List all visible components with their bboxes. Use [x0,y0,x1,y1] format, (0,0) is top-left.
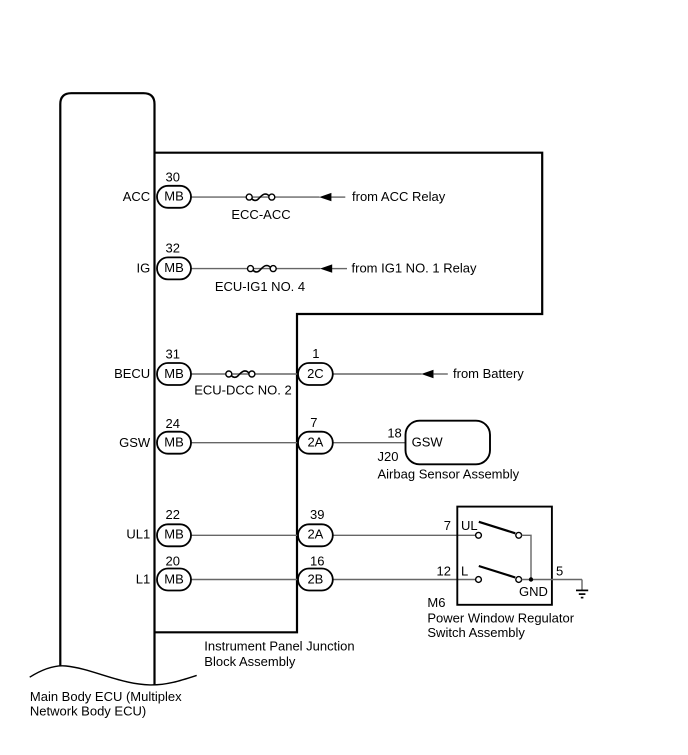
wire BECU right of arrow [434,373,448,375]
svg-text:UL1: UL1 [126,527,150,542]
switch UL left contact [476,532,482,538]
svg-text:32: 32 [166,240,180,255]
wire UL1 row right [333,534,476,536]
switch UL blade [479,522,516,534]
svg-text:39: 39 [310,507,324,522]
wire L1 row right [333,579,476,581]
svg-text:Network Body ECU): Network Body ECU) [30,704,146,719]
ground bar 2 [579,593,586,595]
fuse ECU-DCC NO. 2 left circle [226,371,232,377]
GND junction dot [529,577,533,581]
fuse ECU-DCC NO. 2 right circle [249,371,255,377]
fuse ECC-ACC wave [252,194,270,200]
connector oval 2A pin 39 [298,524,333,546]
svg-text:22: 22 [166,507,180,522]
svg-text:Airbag Sensor Assembly: Airbag Sensor Assembly [378,467,520,482]
svg-text:31: 31 [166,347,180,362]
connector oval MB pin 31 [157,363,191,385]
Power Window Regulator Switch box [457,507,552,605]
connector oval 2B pin 16 [298,569,333,591]
svg-text:20: 20 [166,554,180,569]
svg-text:24: 24 [166,416,180,431]
svg-text:GSW: GSW [119,435,151,450]
svg-text:GND: GND [519,584,548,599]
svg-text:ACC: ACC [123,189,150,204]
connector oval MB pin 32 [157,257,191,279]
svg-text:MB: MB [164,260,184,275]
connector oval MB pin 22 [157,524,191,546]
svg-text:MB: MB [164,526,184,541]
svg-text:IG: IG [136,260,150,275]
svg-text:2C: 2C [307,366,324,381]
wire GSW row left [191,442,298,444]
svg-text:BECU: BECU [114,366,150,381]
wire BECU row left [191,373,298,375]
connector oval 2C pin 1 [298,363,333,385]
svg-text:MB: MB [164,435,184,450]
svg-text:ECU-IG1 NO. 4: ECU-IG1 NO. 4 [215,279,305,294]
svg-text:M6: M6 [427,595,445,610]
wire ACC right of arrow [331,196,345,198]
svg-text:from IG1 NO. 1 Relay: from IG1 NO. 1 Relay [352,260,477,275]
svg-text:Instrument Panel Junction: Instrument Panel Junction [204,638,354,653]
svg-text:Block Assembly: Block Assembly [204,654,296,669]
wire GSW row right [333,442,406,444]
fuse ECU-IG1 NO. 4 right circle [270,266,276,272]
arrow from ACC Relay [319,193,331,201]
wire UL1 row left [191,534,298,536]
svg-text:MB: MB [164,366,184,381]
svg-text:GSW: GSW [412,434,444,449]
wire L contact to ground [522,579,582,581]
Main Body ECU box outline [60,93,154,684]
arrow from Battery [421,370,433,378]
svg-text:16: 16 [310,554,324,569]
fuse ECU-IG1 NO. 4 wave [253,266,271,272]
svg-text:2A: 2A [307,435,323,450]
fuse ECU-DCC NO. 2 wave [231,371,249,377]
Instrument Panel Junction Block outline [155,153,543,633]
fuse ECC-ACC left circle [246,194,252,200]
svg-text:MB: MB [164,189,184,204]
connector oval MB pin 30 [157,186,191,208]
switch UL right contact [516,532,522,538]
svg-text:5: 5 [556,564,563,579]
wire ACC row [191,196,320,198]
svg-text:UL: UL [461,518,478,533]
svg-text:from ACC Relay: from ACC Relay [352,189,446,204]
svg-text:12: 12 [437,564,451,579]
fuse ECC-ACC right circle [269,194,275,200]
Airbag Sensor Assembly box [406,421,491,465]
wire IG row [191,268,320,270]
svg-text:from Battery: from Battery [453,366,524,381]
svg-text:J20: J20 [378,449,399,464]
arrow from IG1 NO. 1 Relay [320,264,332,272]
svg-text:ECU-DCC NO. 2: ECU-DCC NO. 2 [194,382,292,397]
svg-text:L: L [461,564,468,579]
fuse ECU-IG1 NO. 4 left circle [248,266,254,272]
torn edge wave at ECU bottom [30,666,197,685]
connector oval 2A pin 7 [298,432,333,454]
svg-text:18: 18 [387,426,401,441]
svg-text:7: 7 [310,415,317,430]
wire BECU row right [333,373,422,375]
ground bar 3 [581,597,584,599]
svg-text:Main Body ECU (Multiplex: Main Body ECU (Multiplex [30,689,182,704]
svg-text:L1: L1 [136,572,150,587]
switch L blade [479,566,516,578]
svg-text:2A: 2A [307,526,323,541]
svg-text:2B: 2B [307,571,323,586]
wire IG right of arrow [332,268,347,270]
svg-text:30: 30 [166,170,180,185]
switch L left contact [476,577,482,583]
ground stem [581,580,583,591]
ground bar 1 [576,589,588,591]
svg-text:7: 7 [444,518,451,533]
wire UL contact to GND node [522,535,531,579]
svg-text:Switch Assembly: Switch Assembly [427,625,525,640]
svg-text:1: 1 [312,346,319,361]
switch L right contact [516,577,522,583]
svg-text:Power Window Regulator: Power Window Regulator [427,611,574,626]
wire L1 row left [191,579,298,581]
connector oval MB pin 24 [157,432,191,454]
svg-text:ECC-ACC: ECC-ACC [231,207,290,222]
connector oval MB pin 20 [157,569,191,591]
svg-text:MB: MB [164,571,184,586]
